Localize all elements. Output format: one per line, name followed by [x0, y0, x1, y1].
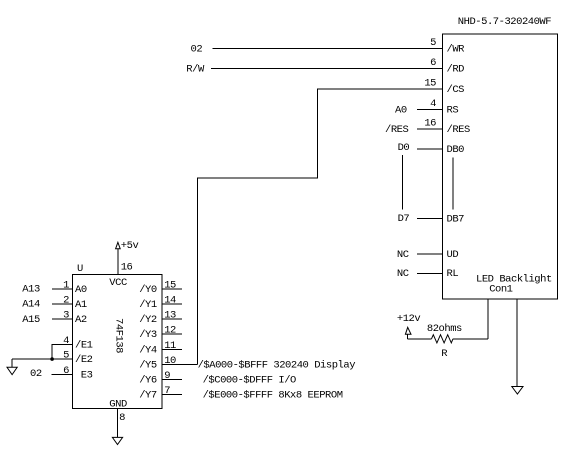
svg-text:/Y7: /Y7 — [139, 390, 157, 402]
svg-text:VCC: VCC — [109, 277, 127, 289]
svg-text:A14: A14 — [22, 299, 40, 311]
display module U2 NHD-5.7-320240WF (box) — [443, 34, 558, 299]
svg-text:9: 9 — [164, 370, 170, 382]
svg-text:8: 8 — [119, 412, 125, 424]
svg-text:/E1: /E1 — [75, 339, 93, 351]
wire NC to UD stub — [417, 253, 443, 255]
svg-text:02: 02 — [191, 43, 203, 55]
junction /E1-/E2 — [50, 357, 54, 361]
svg-text:12: 12 — [164, 325, 176, 337]
wire /Y2 stub — [162, 318, 182, 320]
svg-text:/Y6: /Y6 — [139, 375, 157, 387]
wire /CS to 74F138 /Y5 (routed) — [197, 89, 442, 364]
svg-text:4: 4 — [63, 335, 69, 347]
svg-text:/$A000-$BFFF 320240 Display: /$A000-$BFFF 320240 Display — [198, 359, 356, 371]
svg-text:/RES: /RES — [385, 124, 408, 136]
wire A13 to A0 stub — [52, 288, 73, 290]
svg-text:/Y5: /Y5 — [139, 359, 157, 371]
wire /Y4 stub — [162, 348, 182, 350]
svg-text:13: 13 — [164, 310, 176, 322]
svg-text:D0: D0 — [398, 142, 410, 154]
wire /Y7 stub — [162, 394, 182, 396]
wire GND pin 8 to ground — [117, 409, 119, 438]
wire E3 stub — [51, 373, 72, 375]
wire R/W to /RD pin 6 — [211, 68, 443, 70]
power +12v arrow — [405, 327, 411, 334]
svg-text:/$C000-$DFFF I/O: /$C000-$DFFF I/O — [203, 375, 296, 387]
wire ground drop — [11, 359, 13, 367]
svg-text:A13: A13 — [22, 284, 40, 296]
wire A14 to A1 stub — [52, 303, 73, 305]
svg-text:16: 16 — [121, 261, 133, 273]
wire A0 to RS stub — [417, 108, 443, 110]
wire /E1 to junction — [52, 344, 72, 359]
wire backlight cathode drop — [516, 299, 518, 387]
wire /Y5 to /CS riser — [162, 363, 198, 365]
svg-text:DB7: DB7 — [447, 214, 465, 226]
svg-text:Con1: Con1 — [489, 284, 512, 296]
svg-text:A0: A0 — [395, 104, 407, 116]
svg-text:A15: A15 — [22, 314, 40, 326]
svg-text:/RD: /RD — [447, 64, 465, 76]
svg-text:U: U — [77, 263, 83, 275]
wire D0 to DB0 stub — [417, 148, 443, 150]
svg-text:/Y4: /Y4 — [139, 344, 157, 356]
svg-text:/$E000-$FFFF 8Kx8 EEPROM: /$E000-$FFFF 8Kx8 EEPROM — [203, 390, 343, 402]
svg-text:3: 3 — [63, 310, 69, 322]
wire DB0..DB7 continuation line — [452, 158, 454, 210]
svg-text:+12v: +12v — [397, 313, 420, 325]
svg-text:1: 1 — [63, 279, 69, 291]
wire NC to RL stub — [417, 272, 443, 274]
svg-text:02: 02 — [30, 368, 42, 380]
ground (right, backlight) — [512, 387, 523, 395]
ground (below 74F138) — [112, 437, 122, 444]
wire resistor to backlight — [453, 338, 488, 340]
decoder U1 74F138 (box) — [73, 275, 162, 409]
wire backlight anode drop — [487, 299, 489, 339]
svg-text:DB0: DB0 — [447, 144, 465, 156]
svg-text:10: 10 — [164, 355, 176, 367]
svg-text:15: 15 — [424, 78, 436, 90]
wire /Y0 stub — [162, 288, 182, 290]
svg-text:7: 7 — [164, 385, 170, 397]
wire +12v to resistor — [408, 338, 432, 340]
svg-text:A2: A2 — [75, 314, 87, 326]
resistor R 82ohms — [432, 335, 454, 343]
svg-text:/Y1: /Y1 — [139, 299, 157, 311]
svg-text:11: 11 — [164, 340, 176, 352]
svg-text:/Y2: /Y2 — [139, 314, 157, 326]
svg-text:74F138: 74F138 — [113, 318, 125, 353]
svg-text:/Y3: /Y3 — [139, 329, 157, 341]
svg-text:NHD-5.7-320240WF: NHD-5.7-320240WF — [458, 16, 551, 28]
ground (left, enables) — [7, 367, 17, 374]
svg-text:4: 4 — [430, 98, 436, 110]
svg-text:D7: D7 — [398, 213, 410, 225]
svg-text:6: 6 — [430, 57, 436, 69]
svg-text:NC: NC — [397, 268, 409, 280]
wire A15 to A2 stub — [52, 318, 73, 320]
svg-text:RL: RL — [447, 268, 459, 280]
wire /Y6 stub — [162, 379, 182, 381]
wire /RES stub — [417, 128, 443, 130]
svg-text:+5v: +5v — [121, 240, 139, 252]
wire D0..D7 bus continuation line — [402, 155, 404, 209]
wire D7 to DB7 stub — [417, 218, 443, 220]
svg-text:6: 6 — [63, 365, 69, 377]
svg-text:/Y0: /Y0 — [139, 284, 157, 296]
svg-text:GND: GND — [109, 399, 127, 411]
svg-text:A1: A1 — [75, 299, 87, 311]
svg-text:15: 15 — [164, 279, 176, 291]
wire 02 to /WR pin 5 — [212, 47, 442, 49]
svg-text:5: 5 — [430, 37, 436, 49]
wire /Y1 stub — [162, 303, 182, 305]
svg-text:R/W: R/W — [186, 64, 205, 76]
svg-text:UD: UD — [447, 249, 459, 261]
svg-text:E3: E3 — [81, 369, 93, 381]
svg-text:/CS: /CS — [447, 84, 465, 96]
svg-text:16: 16 — [424, 117, 436, 129]
wire +5v to VCC pin 16 — [117, 249, 119, 275]
svg-text:5: 5 — [63, 350, 69, 362]
power +5v arrow — [116, 242, 121, 248]
wire ground to /E2 — [12, 358, 72, 360]
svg-text:/E2: /E2 — [75, 354, 93, 366]
svg-text:/RES: /RES — [447, 124, 470, 136]
wire /Y3 stub — [162, 333, 182, 335]
svg-text:LED Backlight: LED Backlight — [476, 273, 552, 285]
svg-text:NC: NC — [397, 249, 409, 261]
svg-text:14: 14 — [164, 294, 176, 306]
svg-text:2: 2 — [63, 295, 69, 307]
svg-text:RS: RS — [447, 104, 459, 116]
svg-text:A0: A0 — [75, 284, 87, 296]
svg-text:/WR: /WR — [447, 43, 466, 55]
svg-text:82ohms: 82ohms — [427, 323, 462, 335]
